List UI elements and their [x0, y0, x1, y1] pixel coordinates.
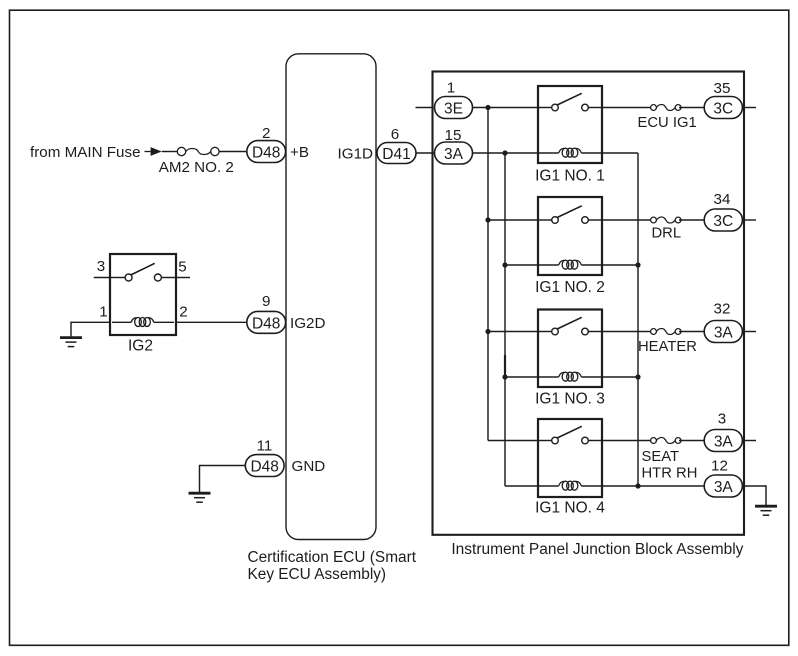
svg-text:D48: D48 — [252, 316, 280, 333]
relay IG1 NO. 3 box — [538, 310, 602, 388]
svg-text:Certification ECU (Smart: Certification ECU (Smart — [248, 549, 417, 566]
svg-text:12: 12 — [711, 458, 728, 475]
connector 3A pin 12 — [704, 475, 742, 497]
fuse HEATER row 32 — [651, 329, 681, 335]
svg-text:IG1 NO. 1: IG1 NO. 1 — [535, 168, 605, 185]
certification ECU box U1 — [286, 54, 376, 540]
wire bus to relay 2 switch — [488, 219, 538, 221]
svg-text:6: 6 — [391, 126, 399, 143]
stub wire — [744, 331, 756, 333]
relay IG1 NO. 1 coil line — [538, 152, 559, 154]
stub left of 3E — [416, 107, 433, 109]
relay IG1 NO. 4 coil — [559, 481, 582, 490]
svg-text:Instrument Panel Junction Bloc: Instrument Panel Junction Block Assembly — [451, 541, 743, 558]
relay IG1 NO. 3 switch contacts — [552, 317, 589, 335]
svg-text:15: 15 — [445, 127, 462, 144]
svg-text:D48: D48 — [250, 459, 278, 476]
wire 3E to relay IG1 NO.1 — [473, 107, 539, 109]
connector D48 pin 9 — [247, 311, 286, 333]
relay IG1 NO. 2 coil line — [538, 264, 559, 266]
wire 3A pin 12 to ground — [742, 485, 766, 487]
wire D41 to 3A — [416, 152, 435, 154]
junction dot — [485, 329, 490, 334]
svg-text:HEATER: HEATER — [638, 339, 697, 355]
wire relay to fuse row 34 — [602, 219, 653, 221]
svg-text:3A: 3A — [444, 146, 464, 163]
svg-text:5: 5 — [178, 259, 186, 276]
relay IG1 NO. 3 switch line — [538, 331, 552, 333]
relay IG1 NO. 4 switch contacts — [552, 426, 589, 444]
relay IG2 coil line — [112, 321, 131, 323]
relay IG1 NO. 4 box — [538, 419, 602, 497]
svg-text:35: 35 — [714, 80, 731, 97]
svg-text:D48: D48 — [252, 145, 280, 162]
right coil bus wire — [602, 152, 638, 154]
svg-text:D41: D41 — [382, 146, 410, 163]
svg-text:3C: 3C — [713, 101, 733, 118]
wire relay to fuse row 3 — [602, 440, 653, 442]
wire GND to ground — [200, 465, 248, 467]
relay IG1 NO. 2 coil — [559, 260, 582, 269]
relay IG2 coil L1 — [131, 318, 154, 327]
ground for IG2 coil — [60, 338, 82, 347]
switch bus wire — [487, 108, 489, 441]
connector 3C pin 35 — [704, 97, 742, 119]
junction dot — [485, 217, 490, 222]
junction dot — [502, 150, 507, 155]
relay IG1 NO. 2 box — [538, 197, 602, 275]
stub wire — [744, 440, 756, 442]
svg-text:AM2 NO. 2: AM2 NO. 2 — [159, 159, 234, 176]
wire bus to relay 2 coil — [505, 264, 538, 266]
wire fuse to connector 3A pin 32 — [679, 331, 704, 333]
pin 3 stub — [94, 277, 110, 279]
stub wire — [744, 107, 756, 109]
svg-text:+B: +B — [290, 144, 309, 161]
connector 3A pin 3 — [704, 430, 742, 452]
relay IG2 switch contacts — [125, 263, 161, 281]
junction dot — [485, 105, 490, 110]
wire fuse to D48 pin 2 — [219, 151, 247, 153]
svg-text:3A: 3A — [714, 434, 734, 451]
svg-text:3: 3 — [97, 258, 105, 275]
svg-text:2: 2 — [179, 304, 187, 321]
svg-text:3A: 3A — [714, 479, 734, 496]
pin 2 wire to D48 pin 9 — [176, 321, 247, 323]
svg-text:IG2D: IG2D — [290, 315, 325, 332]
relay IG1 NO. 1 box — [538, 86, 602, 163]
svg-text:IG1 NO. 2: IG1 NO. 2 — [535, 279, 605, 296]
svg-text:IG1D: IG1D — [338, 146, 373, 163]
svg-text:3E: 3E — [444, 101, 463, 118]
junction dot — [502, 374, 507, 379]
fuse SEAT row 3 — [651, 438, 681, 444]
junction dot — [502, 262, 507, 267]
wire fuse to connector 3C pin 35 — [679, 107, 704, 109]
pin 1 wire to ground — [71, 321, 110, 323]
svg-text:1: 1 — [447, 79, 455, 96]
relay IG1 NO. 1 switch line — [538, 107, 552, 109]
wire bus to relay 3 coil — [505, 376, 538, 378]
relay IG2 switch line — [110, 277, 125, 279]
svg-text:3C: 3C — [713, 213, 733, 230]
stub wire — [744, 219, 756, 221]
svg-text:IG2: IG2 — [128, 338, 153, 355]
pin 5 stub — [176, 277, 190, 279]
relay IG1 NO. 4 coil line — [538, 485, 559, 487]
connector 3C pin 34 — [704, 209, 742, 231]
wire 3A to relay IG1 NO.1 coil — [473, 152, 539, 154]
svg-text:SEAT: SEAT — [642, 449, 680, 465]
fuse AM2 NO. 2 — [177, 147, 219, 155]
svg-text:DRL: DRL — [652, 226, 682, 242]
svg-text:HTR RH: HTR RH — [642, 465, 698, 481]
svg-text:32: 32 — [714, 301, 731, 318]
relay IG1 NO. 3 coil — [559, 372, 582, 381]
junction dot — [635, 262, 640, 267]
svg-text:GND: GND — [292, 458, 326, 475]
connector 3E pin 1 — [435, 97, 473, 119]
connector 3A pin 32 — [704, 321, 742, 343]
relay IG2 box — [110, 254, 176, 335]
relay IG1 NO. 2 switch contacts — [552, 206, 589, 224]
fuse ECU IG1 row 35 — [651, 105, 681, 111]
relay IG1 NO. 2 switch line — [538, 219, 552, 221]
wire bus to relay 3 switch — [488, 331, 538, 333]
arrow from MAIN Fuse — [145, 151, 151, 153]
wire arrow to fuse — [162, 151, 178, 153]
svg-text:Key ECU Assembly): Key ECU Assembly) — [248, 566, 387, 583]
wire relay to fuse row 35 — [602, 107, 653, 109]
wire fuse to connector 3A pin 3 — [679, 440, 704, 442]
wire relay 2 coil to bus — [602, 264, 638, 266]
connector D41 pin 6 — [377, 143, 416, 164]
svg-text:1: 1 — [99, 304, 107, 321]
svg-text:9: 9 — [262, 293, 270, 310]
connector D48 pin 2 — [247, 141, 286, 163]
relay IG1 NO. 3 coil line — [538, 376, 559, 378]
svg-text:34: 34 — [714, 191, 731, 208]
wire relay 4 coil to connector 3A pin 12 — [602, 485, 704, 487]
wire fuse to connector 3C pin 34 — [679, 219, 704, 221]
svg-text:from MAIN Fuse: from MAIN Fuse — [30, 144, 141, 161]
ground for ECU GND — [189, 493, 211, 502]
connector 3A pin 15 — [435, 142, 473, 164]
relay IG1 NO. 4 switch line — [538, 440, 552, 442]
junction dot — [635, 374, 640, 379]
svg-text:ECU IG1: ECU IG1 — [638, 115, 697, 131]
coil bus overdrawn segment — [504, 355, 506, 377]
coil bus wire — [504, 153, 506, 486]
svg-text:IG1 NO. 3: IG1 NO. 3 — [535, 390, 605, 407]
ground at junction block — [755, 506, 777, 515]
svg-text:2: 2 — [262, 125, 270, 142]
connector D48 pin 11 — [245, 455, 284, 477]
wire relay 3 coil to bus — [602, 376, 638, 378]
svg-text:11: 11 — [257, 438, 273, 455]
fuse DRL row 34 — [651, 217, 681, 223]
svg-text:3A: 3A — [714, 325, 734, 342]
svg-text:3: 3 — [718, 411, 726, 428]
junction dot — [635, 483, 640, 488]
relay IG1 NO. 1 coil — [559, 148, 582, 157]
svg-text:IG1 NO. 4: IG1 NO. 4 — [535, 499, 605, 516]
relay IG1 NO. 1 switch contacts — [552, 93, 589, 110]
instrument panel junction block box — [433, 72, 745, 535]
wire relay to fuse row 32 — [602, 331, 653, 333]
